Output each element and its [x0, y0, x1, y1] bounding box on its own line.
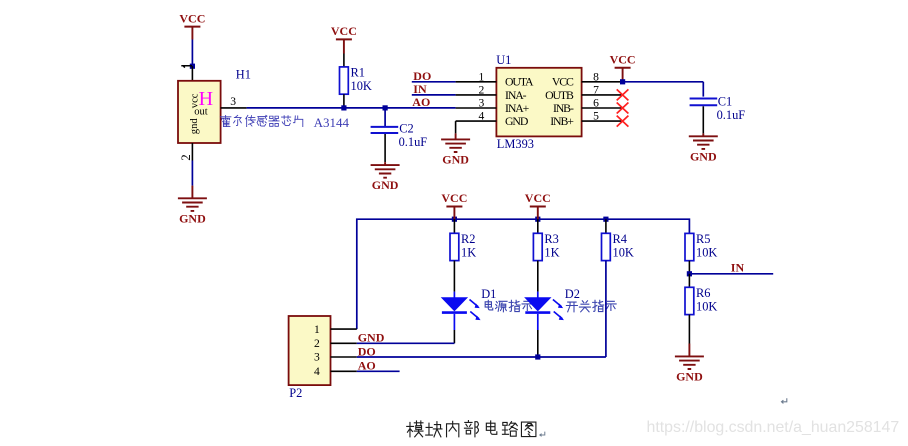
pin stub U1 pin 5	[582, 110, 623, 123]
svg-text:P2: P2	[289, 386, 302, 400]
svg-text:H: H	[199, 88, 213, 110]
svg-text:INB+: INB+	[550, 114, 574, 128]
svg-text:2: 2	[314, 337, 320, 350]
svg-text:8: 8	[593, 70, 599, 83]
svg-text:OUTB: OUTB	[545, 88, 574, 102]
capacitor C1 0.1uF	[690, 95, 746, 137]
wire D1 to GND row	[453, 330, 455, 343]
net label IN (output)	[731, 261, 745, 275]
connector P2 body	[289, 316, 331, 385]
svg-text:A3144: A3144	[314, 115, 350, 130]
junction D2/DO row	[535, 354, 540, 359]
label U1	[496, 53, 511, 67]
op-amp U1 LM393 body	[496, 68, 581, 137]
svg-text:INA-: INA-	[505, 88, 527, 102]
svg-text:IN: IN	[731, 261, 745, 275]
pin stub hall pin 2	[191, 143, 193, 161]
svg-text:3: 3	[314, 351, 320, 364]
svg-text:4: 4	[314, 365, 320, 378]
svg-text:10K: 10K	[696, 246, 717, 260]
wire bus corner to R5	[688, 232, 690, 234]
label A3144 annotation	[220, 115, 349, 130]
svg-text:GND: GND	[676, 369, 703, 383]
ground (R6)	[675, 356, 704, 383]
wire D2 to DO row	[537, 330, 539, 357]
LED D2	[525, 292, 564, 330]
label LM393	[497, 137, 534, 151]
no-ERC marker pin 7	[617, 89, 629, 100]
watermark	[647, 419, 900, 436]
pin stub U1 pin 8	[582, 70, 623, 83]
svg-text:R3: R3	[544, 232, 558, 246]
net label IN	[413, 82, 427, 96]
svg-text:10K: 10K	[696, 300, 717, 314]
resistor R5 10K	[685, 232, 717, 261]
svg-text:10K: 10K	[351, 79, 372, 93]
svg-text:OUTA: OUTA	[505, 75, 534, 89]
wire IN	[689, 273, 773, 275]
junction hall pin 1	[190, 64, 195, 69]
wire R2 to D1	[453, 261, 455, 292]
pin stub U1 pin 6	[582, 97, 623, 110]
svg-text:3: 3	[479, 97, 485, 110]
resistor R6 10K	[685, 286, 717, 315]
svg-text:VCC: VCC	[441, 191, 467, 205]
wire DO row	[357, 356, 606, 358]
wire bus to R2	[453, 219, 455, 233]
wire AO net (hall pin3 to U1 pin3)	[247, 107, 456, 109]
svg-text:R2: R2	[461, 232, 475, 246]
wire junction to R6	[688, 274, 690, 288]
no-ERC marker pin 6	[617, 103, 629, 114]
svg-text:IN: IN	[413, 82, 427, 96]
pin 2 number	[179, 154, 193, 160]
pin stub U1 pin 7	[582, 84, 623, 97]
wire R4 to DO row	[605, 261, 607, 357]
wire GND row	[357, 342, 455, 344]
svg-text:1: 1	[314, 323, 320, 336]
resistor R3 1K	[533, 232, 559, 261]
return mark (title)	[540, 432, 545, 437]
pin stub P2 pin 3	[331, 356, 357, 358]
LED D1	[442, 292, 481, 330]
label D1	[481, 287, 496, 301]
svg-text:0.1uF: 0.1uF	[399, 135, 428, 149]
wire U1 pin4 to ground	[455, 121, 457, 139]
junction bus/R2	[452, 217, 457, 222]
wire pin8 to C1	[623, 82, 704, 97]
junction C2/AO	[383, 105, 388, 110]
svg-text:1K: 1K	[461, 246, 476, 260]
svg-text:VCC: VCC	[179, 11, 205, 25]
svg-text:1K: 1K	[544, 246, 559, 260]
net label AO (P2)	[358, 359, 376, 373]
ground (U1 pin 4)	[441, 139, 470, 166]
svg-text:GND: GND	[690, 149, 717, 163]
svg-text:INB-: INB-	[553, 101, 574, 115]
svg-text:VCC: VCC	[331, 24, 357, 38]
pin stub P2 pin 1	[331, 328, 357, 330]
net label DO	[413, 69, 431, 83]
resistor R4 10K	[602, 232, 634, 261]
pin stub hall pin 1	[191, 66, 193, 81]
net label DO (P2)	[358, 344, 376, 358]
pin stub U1 pin 3	[456, 97, 497, 110]
svg-text:10K: 10K	[613, 246, 634, 260]
wire AO row	[357, 370, 400, 372]
hall sensor H1 body	[178, 81, 221, 143]
label D2	[565, 287, 580, 301]
title caption	[407, 421, 536, 437]
pin 3 stub and number	[221, 95, 247, 108]
svg-text:LM393: LM393	[497, 137, 534, 151]
svg-text:2: 2	[479, 84, 485, 97]
power symbol VCC (R3)	[525, 191, 551, 219]
ground (hall)	[178, 198, 207, 225]
svg-text:INA+: INA+	[505, 101, 530, 115]
power symbol VCC (hall sensor)	[179, 11, 205, 39]
net label AO	[412, 95, 430, 109]
svg-text:4: 4	[479, 110, 485, 123]
wire VCC to hall pin 1	[191, 40, 193, 67]
svg-text:D2: D2	[565, 287, 580, 301]
svg-text:D1: D1	[481, 287, 496, 301]
label P2	[289, 386, 302, 400]
power symbol VCC (U1 pin 8)	[610, 52, 636, 81]
svg-text:C2: C2	[399, 121, 413, 135]
junction pin 8	[620, 79, 625, 84]
pin stub P2 pin 4	[331, 370, 357, 372]
svg-text:2: 2	[179, 154, 193, 160]
svg-text:R1: R1	[351, 66, 365, 80]
svg-text:U1: U1	[496, 53, 511, 67]
svg-text:R4: R4	[613, 232, 627, 246]
wire R5 to junction	[688, 261, 690, 274]
svg-text:R6: R6	[696, 286, 710, 300]
annotation switch indicator	[566, 300, 616, 312]
svg-text:3: 3	[230, 95, 236, 108]
svg-text:https://blog.csdn.net/a_huan25: https://blog.csdn.net/a_huan258147	[647, 419, 900, 436]
wire hall pin 2 to ground	[191, 161, 193, 199]
svg-text:gnd: gnd	[189, 118, 200, 135]
wire R1 to AO net	[343, 94, 345, 108]
pin stub P2 pin 2	[331, 342, 357, 344]
wire DO	[412, 81, 456, 83]
svg-text:GND: GND	[442, 152, 469, 166]
power symbol VCC (R1)	[331, 24, 357, 53]
svg-text:VCC: VCC	[525, 191, 551, 205]
svg-text:GND: GND	[372, 178, 399, 192]
svg-text:6: 6	[593, 97, 599, 110]
pin stub U1 pin 1	[456, 70, 497, 83]
wire VCC bus	[357, 219, 690, 329]
svg-text:5: 5	[593, 110, 599, 123]
capacitor C2 0.1uF	[371, 108, 428, 165]
return mark (right)	[782, 398, 787, 403]
wire VCC to R1	[343, 54, 345, 67]
junction R5/R6/IN	[687, 271, 692, 276]
resistor R1 10K	[340, 66, 372, 95]
ground (C1)	[689, 136, 718, 163]
wire IN	[412, 94, 456, 96]
pin 1 number	[181, 66, 192, 68]
svg-text:GND: GND	[505, 114, 529, 128]
junction bus/R4	[603, 217, 608, 222]
junction R1/AO	[341, 105, 346, 110]
svg-text:0.1uF: 0.1uF	[717, 108, 746, 122]
wire bus to R3	[537, 219, 539, 233]
svg-text:1: 1	[479, 70, 485, 83]
label H1	[236, 68, 251, 82]
svg-text:C1: C1	[718, 95, 732, 109]
annotation power indicator	[485, 300, 532, 312]
svg-text:VCC: VCC	[610, 52, 636, 66]
no-ERC marker pin 5	[617, 116, 629, 127]
svg-text:R5: R5	[696, 232, 710, 246]
ground (C2)	[371, 165, 400, 192]
resistor R2 1K	[450, 232, 476, 261]
pin stub U1 pin 4	[456, 110, 497, 123]
svg-text:AO: AO	[412, 95, 430, 109]
svg-text:H1: H1	[236, 68, 251, 82]
svg-text:VCC: VCC	[552, 75, 574, 89]
wire R6 to ground	[688, 315, 690, 357]
wire bus to R4	[605, 219, 607, 233]
power symbol VCC (R2)	[441, 191, 467, 219]
svg-text:7: 7	[593, 84, 599, 97]
net label GND (P2)	[358, 331, 385, 345]
svg-text:DO: DO	[413, 69, 431, 83]
junction bus/R3	[535, 217, 540, 222]
pin stub U1 pin 2	[456, 84, 497, 97]
svg-text:GND: GND	[179, 211, 206, 225]
wire R3 to D2	[537, 261, 539, 292]
